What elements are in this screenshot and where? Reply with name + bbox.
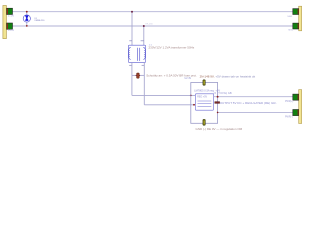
- AC source V1: [23, 11, 45, 27]
- pin tick TR1 primary P2: [141, 40, 144, 42]
- pin tick TR1 secondary S2: [142, 64, 145, 66]
- TR1 secondary winding: [143, 47, 145, 59]
- svg-text:VSINE-230: VSINE-230: [34, 20, 45, 22]
- wire A to regulator input: [132, 94, 195, 96]
- fuse bottom of loop: [203, 119, 205, 125]
- U2 plate line 2: [198, 103, 212, 105]
- TR1 core bar 1: [137, 48, 139, 61]
- svg-text:SIG2: SIG2: [288, 30, 294, 32]
- U2 body outline: [195, 94, 213, 110]
- pin dot wire A: [190, 95, 192, 97]
- J1 pin 1 contact: [7, 9, 8, 15]
- FS1 pin dot right: [139, 75, 140, 76]
- connector J1 (mains input terminal block): [3, 6, 7, 39]
- wire 0V return: [218, 111, 293, 113]
- pin J2.1: [287, 9, 298, 18]
- wire primary top drop: [131, 12, 133, 46]
- junction output/loop: [217, 96, 219, 98]
- fuse top of loop: [203, 80, 205, 86]
- U2 plate line 1: [198, 100, 212, 102]
- svg-text:GND (-) RE 0V — in regulation: GND (-) RE 0V — in regulation OM: [196, 127, 243, 131]
- svg-text:L-2N: L-2N: [8, 28, 14, 32]
- svg-text:230V/12V 1.2VA transformer 50H: 230V/12V 1.2VA transformer 50Hz: [149, 45, 195, 49]
- J1 pin 2 contact: [7, 23, 8, 29]
- ground loop around U2: [191, 83, 218, 124]
- wire secondary left drop: [131, 62, 133, 95]
- connector J3 (bottom right): [299, 90, 302, 124]
- transformer TR1: [128, 41, 194, 66]
- J1 pin 1 body: [7, 8, 13, 14]
- pin J2.2: [288, 23, 298, 32]
- FS1 body: [137, 73, 140, 78]
- connector J2 (top right): [299, 6, 302, 31]
- J3 pin 2 contact: [298, 110, 299, 115]
- pin dot wire B: [193, 104, 195, 106]
- V1 circle body: [23, 15, 30, 22]
- svg-text:TR-230: TR-230: [145, 23, 153, 25]
- svg-text:PWR(+): PWR(+): [285, 101, 293, 103]
- svg-text:OUTPUT 5V DC + REGULATED (RE): OUTPUT 5V DC + REGULATED (RE) GR-: [220, 101, 277, 105]
- J1 pin 2 body: [7, 23, 13, 29]
- V1 node dot top: [26, 11, 28, 13]
- J2 pin 1 contact: [298, 9, 299, 14]
- V1 bottom stub: [26, 22, 28, 26]
- V1 node dot bottom: [26, 25, 28, 27]
- wire secondary right drop: [143, 62, 145, 104]
- regulator U2 box: [195, 94, 213, 110]
- wire B to regulator common: [144, 104, 195, 106]
- U2 plate line 3: [198, 105, 212, 107]
- V1 top stub: [26, 12, 28, 15]
- J2 pin 2 contact: [298, 24, 299, 29]
- svg-text:+5 (T=0.5s) GB: +5 (T=0.5s) GB: [213, 91, 232, 95]
- junction bottom wire x143.8: [143, 25, 145, 27]
- pin J3.1: [285, 94, 299, 103]
- J2 pin 2 body: [293, 23, 299, 29]
- TR1 primary winding: [129, 47, 131, 59]
- svg-text:PWR(-): PWR(-): [285, 117, 293, 119]
- output wire +5V: [214, 96, 293, 98]
- FS1 pin dot left: [136, 75, 137, 76]
- fuse on loop below output: [215, 102, 220, 104]
- J3 pin 2 body: [293, 110, 299, 116]
- wire bottom net N: [12, 25, 293, 27]
- TR1 body outline: [128, 45, 145, 62]
- wire primary bottom drop: [143, 26, 145, 45]
- TR1 core bar 2: [139, 48, 141, 61]
- svg-text:REG +5V: REG +5V: [197, 96, 207, 98]
- junction top wire x132: [131, 11, 133, 13]
- pin tick TR1 secondary S1: [129, 64, 132, 66]
- junction return/loop: [217, 112, 219, 114]
- pin J1.2: [7, 23, 14, 32]
- wire fuse row: [132, 74, 144, 76]
- svg-text:L-1N: L-1N: [8, 14, 14, 18]
- J2 pin 1 body: [293, 9, 299, 15]
- wire top net L: [12, 11, 293, 13]
- V1 hourglass glyph: [25, 16, 28, 21]
- J3 pin 1 body: [293, 94, 299, 100]
- pin J1.1: [7, 8, 14, 17]
- pin tick TR1 primary P1: [129, 40, 132, 42]
- fuse FS1 across secondary: [132, 73, 197, 78]
- pin J3.2: [285, 110, 299, 119]
- svg-text:U2 4V: U2 4V: [185, 77, 192, 80]
- svg-text:SIG1: SIG1: [287, 16, 293, 18]
- J3 pin 1 contact: [298, 95, 299, 100]
- svg-text:2N-148 9V, +5V drawn tab-on he: 2N-148 9V, +5V drawn tab-on heatsink ok: [200, 75, 256, 79]
